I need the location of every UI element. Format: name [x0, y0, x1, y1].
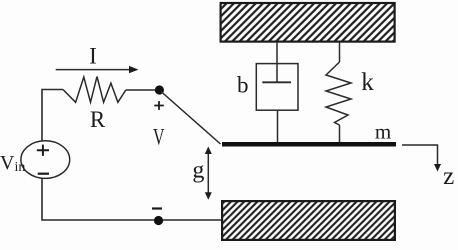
- bottom fixed plate (hatched electrode): [222, 201, 395, 240]
- resistor R (zigzag): [63, 77, 126, 103]
- svg-text:k: k: [361, 69, 374, 96]
- voltage source Vin (circle): [21, 141, 70, 179]
- displacement arrow z: [402, 145, 438, 166]
- rod: top plate to damper: [276, 42, 278, 82]
- svg-text:I: I: [89, 44, 97, 69]
- plus sign at node V: [154, 101, 164, 110]
- damper piston: [262, 81, 291, 83]
- minus sign inside source: [38, 173, 49, 175]
- node V (junction dot, + terminal): [155, 85, 164, 94]
- rod: spring to movable plate: [339, 125, 341, 143]
- gap arrow g (double headed): [207, 152, 209, 195]
- svg-text:b: b: [237, 72, 249, 97]
- node (− terminal) on bottom rail: [154, 216, 163, 225]
- plus sign inside source: [37, 145, 49, 156]
- minus sign at bottom node: [152, 207, 162, 209]
- svg-text:V: V: [153, 125, 165, 150]
- svg-text:R: R: [90, 107, 106, 132]
- svg-text:g: g: [192, 157, 204, 183]
- svg-text:z: z: [443, 163, 454, 190]
- wire: diagonal from node V to movable plate: [161, 92, 221, 145]
- wire: top-left horizontal from source branch to resistor: [42, 90, 63, 142]
- rod: top plate to spring: [339, 42, 341, 62]
- current arrow I: [56, 69, 131, 71]
- wire: resistor to node V: [126, 89, 160, 91]
- spring k (zigzag): [326, 62, 351, 125]
- svg-text:m: m: [375, 120, 391, 144]
- top fixed plate (hatched electrode): [221, 3, 395, 42]
- damper b cylinder (box): [256, 64, 298, 111]
- wire: left vertical below source to bottom rail: [42, 178, 221, 220]
- rod: damper to movable plate: [277, 110, 279, 143]
- movable plate (mass m, thick line): [222, 142, 396, 147]
